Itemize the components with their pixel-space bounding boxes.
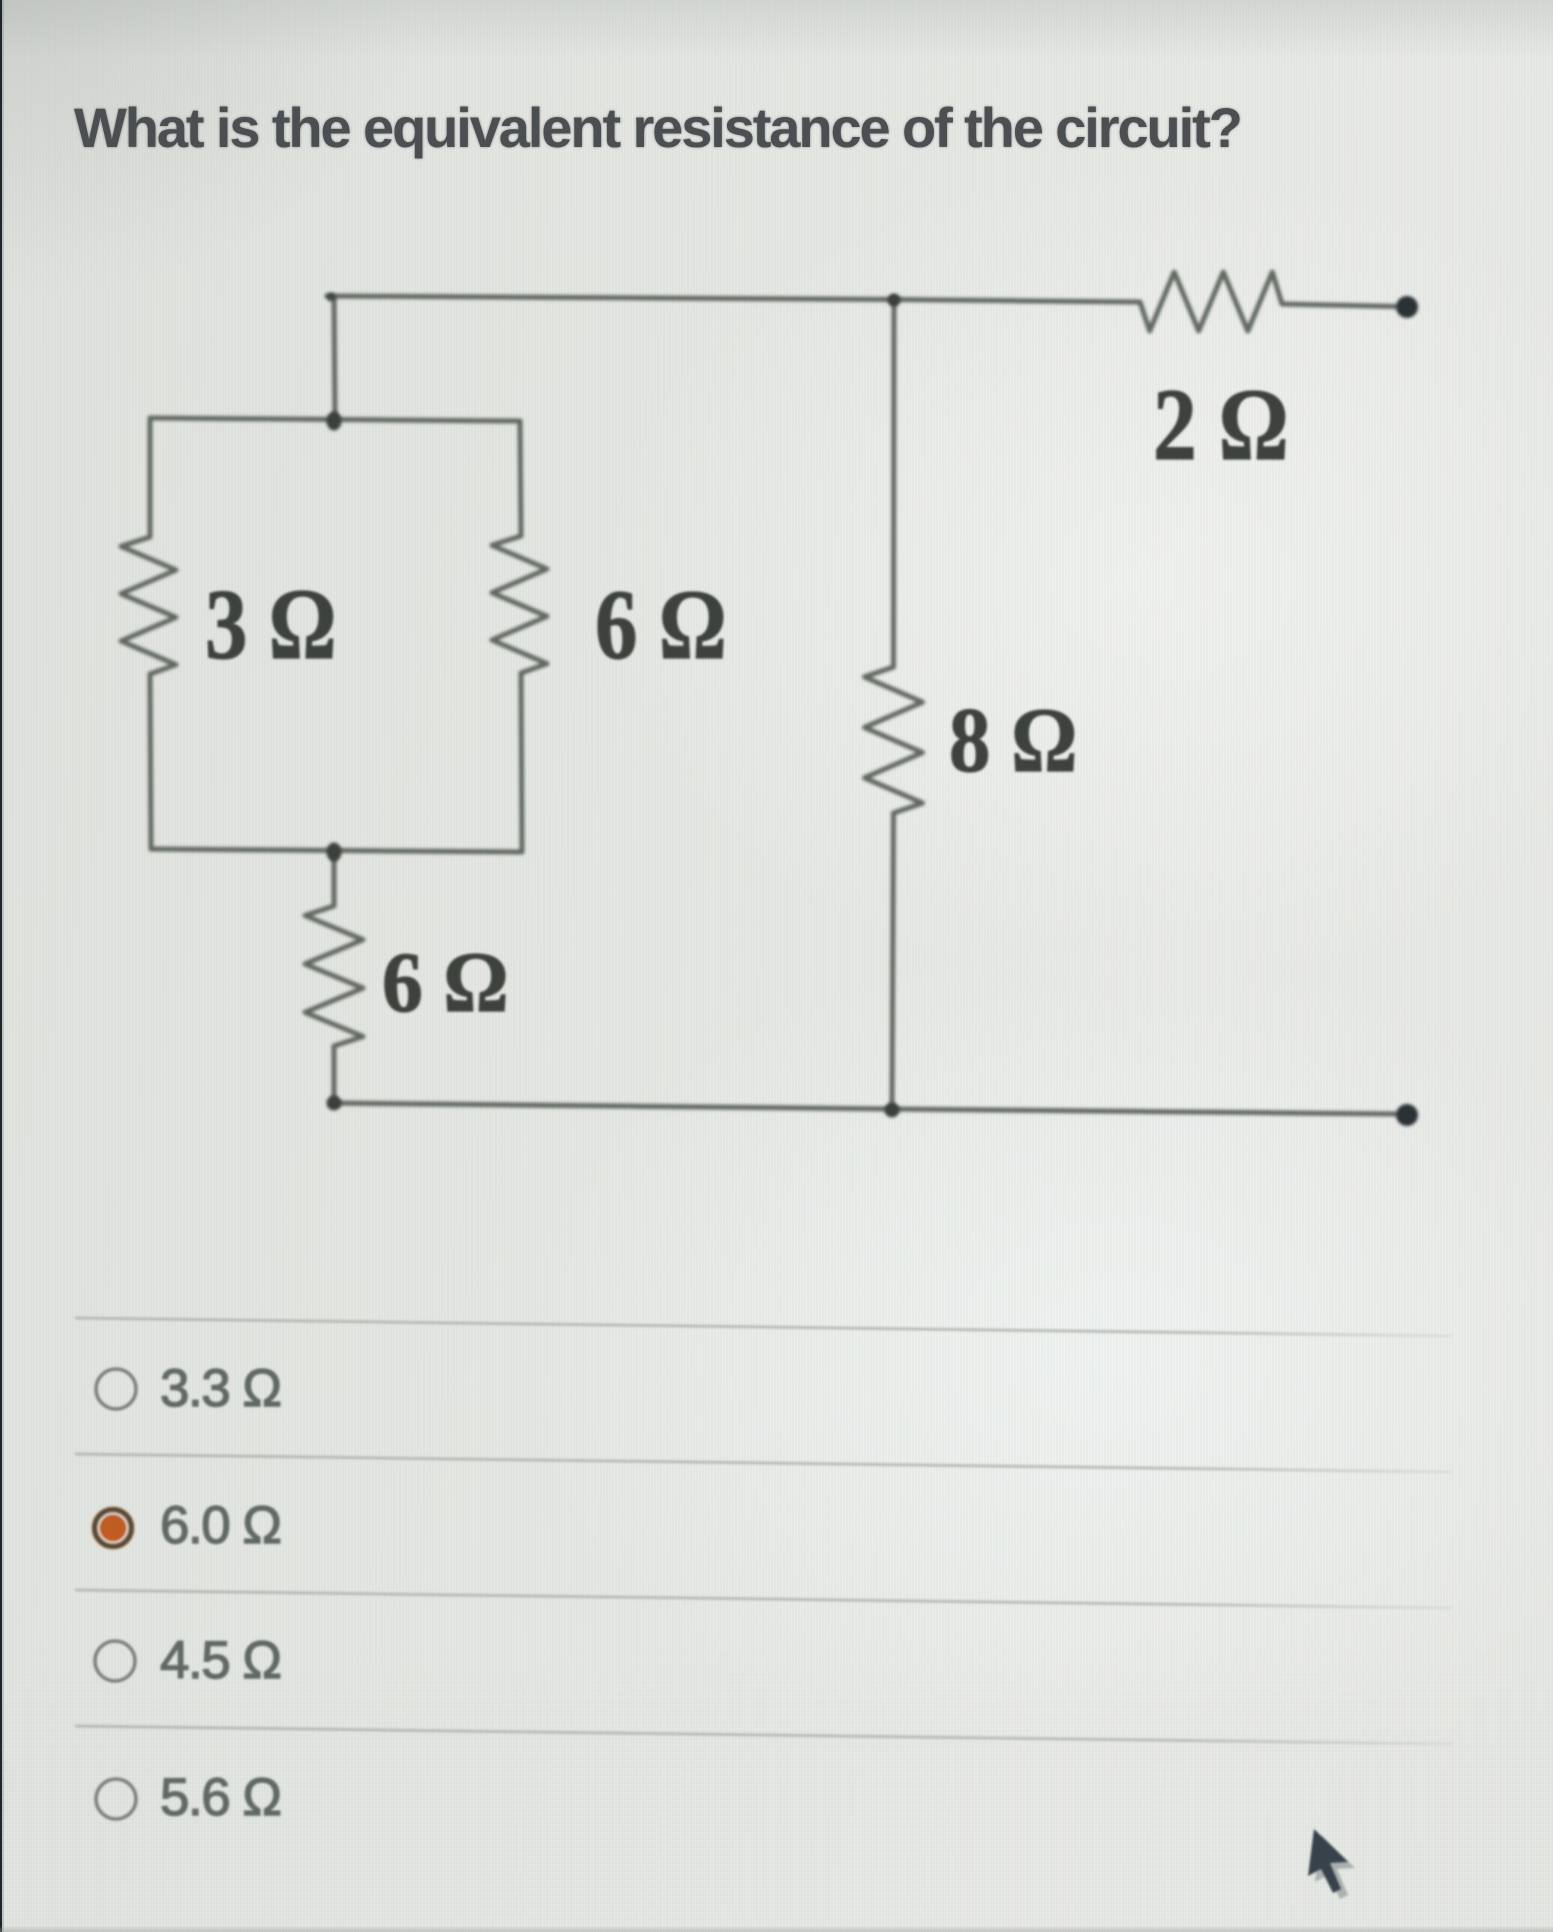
svg-text:2 Ω: 2 Ω bbox=[1153, 367, 1289, 481]
title: question text bbox=[74, 95, 1241, 160]
svg-text:6 Ω: 6 Ω bbox=[382, 935, 509, 1030]
resistor R4 8-ohm: middle vertical branch bbox=[865, 298, 923, 1109]
resistor R3 6-ohm: lower branch below box bbox=[305, 850, 363, 1103]
separator above option 1 bbox=[75, 1318, 1452, 1336]
node D: junction bottom rail / 8-ohm branch bbox=[885, 1103, 900, 1118]
wire: parallel box top rail bbox=[150, 418, 520, 421]
node E: junction bottom rail / lower 6-ohm branch bbox=[327, 1096, 342, 1111]
corner blob at top rail start bbox=[327, 293, 336, 302]
mouse cursor arrow bbox=[1308, 1829, 1348, 1893]
wire: bottom rail to right terminal bbox=[334, 1103, 1396, 1114]
separator above option 4 bbox=[75, 1726, 1452, 1744]
svg-text:4.5 Ω: 4.5 Ω bbox=[160, 1631, 281, 1690]
svg-text:3 Ω: 3 Ω bbox=[205, 569, 337, 681]
node A: junction top rail / vertical bbox=[327, 412, 342, 431]
wire: parallel box bottom rail bbox=[151, 849, 522, 852]
terminal dot: top right bbox=[1396, 296, 1418, 318]
svg-text:6 Ω: 6 Ω bbox=[595, 570, 727, 681]
wire: vertical from top rail down to parallel box top bbox=[334, 296, 335, 418]
radio unselected: option 4.5 ohm bbox=[95, 1641, 135, 1681]
radio unselected: option 3.3 ohm bbox=[96, 1369, 136, 1409]
radio unselected: option 5.6 ohm bbox=[96, 1779, 136, 1819]
wire: top rail from node A to right terminal, with 2-ohm resistor bbox=[327, 272, 1396, 331]
separator above option 3 bbox=[75, 1590, 1452, 1608]
resistor R1 3-ohm: left rail of parallel box bbox=[121, 418, 176, 849]
svg-text:6.0 Ω: 6.0 Ω bbox=[160, 1496, 281, 1555]
separator lines bbox=[75, 1318, 1452, 1744]
mouse cursor shadow bbox=[1315, 1835, 1355, 1899]
resistor R2 6-ohm: right rail of parallel box bbox=[492, 421, 547, 852]
svg-text:5.6 Ω: 5.6 Ω bbox=[160, 1768, 281, 1827]
radio selected: option 6.0 ohm bbox=[90, 1505, 136, 1551]
node B: junction box bottom / lower branch bbox=[327, 843, 342, 862]
node C: junction top rail / 8-ohm branch bbox=[888, 294, 901, 307]
svg-text:8 Ω: 8 Ω bbox=[949, 689, 1077, 791]
svg-text:3.3 Ω: 3.3 Ω bbox=[160, 1359, 281, 1418]
terminal dot: bottom right bbox=[1396, 1104, 1418, 1126]
separator above option 2 bbox=[75, 1454, 1452, 1472]
